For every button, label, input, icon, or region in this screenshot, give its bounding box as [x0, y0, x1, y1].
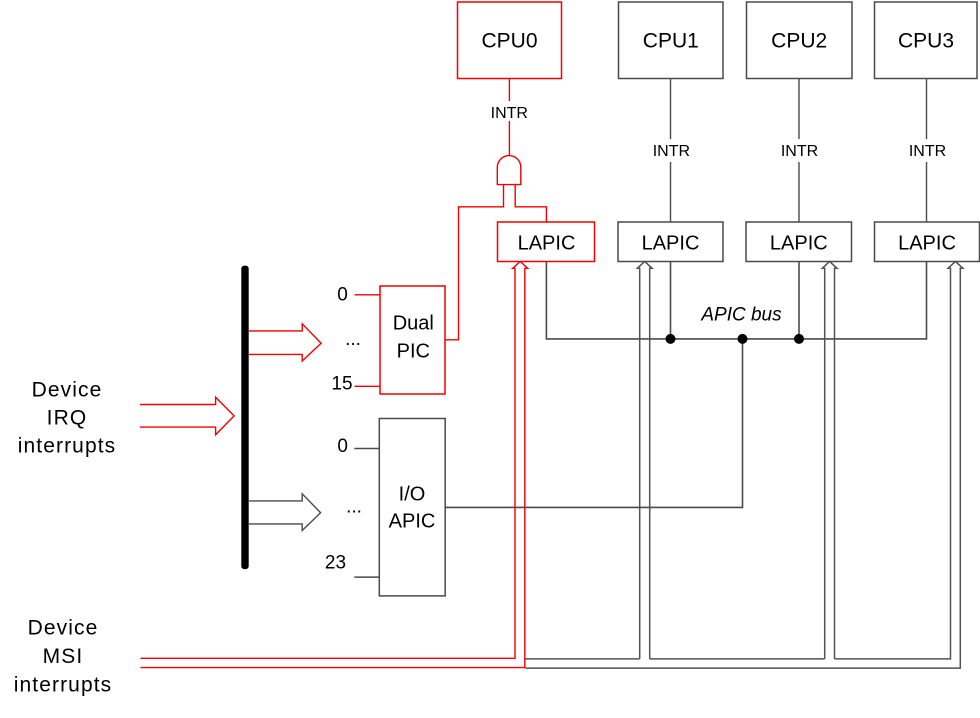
- svg-text:MSI: MSI: [43, 645, 84, 668]
- svg-text:LAPIC: LAPIC: [770, 233, 828, 255]
- svg-text:LAPIC: LAPIC: [518, 233, 576, 255]
- svg-text:LAPIC: LAPIC: [642, 233, 700, 255]
- svg-text:Dual: Dual: [393, 313, 434, 335]
- svg-text:INTR: INTR: [909, 143, 946, 160]
- svg-text:...: ...: [345, 329, 361, 350]
- svg-text:CPU2: CPU2: [771, 30, 827, 53]
- svg-text:IRQ: IRQ: [47, 407, 88, 430]
- svg-text:INTR: INTR: [653, 143, 690, 160]
- svg-text:INTR: INTR: [781, 143, 818, 160]
- svg-text:APIC bus: APIC bus: [700, 305, 782, 326]
- svg-text:interrupts: interrupts: [18, 435, 117, 458]
- svg-text:PIC: PIC: [397, 341, 430, 363]
- svg-text:I/O: I/O: [399, 484, 426, 506]
- svg-text:CPU0: CPU0: [481, 30, 537, 53]
- svg-text:CPU3: CPU3: [898, 30, 954, 53]
- svg-text:INTR: INTR: [491, 105, 528, 122]
- svg-text:15: 15: [331, 374, 352, 395]
- svg-text:0: 0: [337, 436, 348, 457]
- svg-text:...: ...: [346, 497, 362, 518]
- svg-text:Device: Device: [28, 617, 99, 640]
- svg-text:0: 0: [337, 285, 348, 306]
- svg-text:APIC: APIC: [389, 511, 436, 533]
- svg-text:LAPIC: LAPIC: [898, 233, 956, 255]
- svg-text:CPU1: CPU1: [643, 30, 699, 53]
- svg-text:Device: Device: [32, 379, 103, 402]
- svg-text:23: 23: [325, 553, 346, 574]
- svg-text:interrupts: interrupts: [14, 674, 113, 697]
